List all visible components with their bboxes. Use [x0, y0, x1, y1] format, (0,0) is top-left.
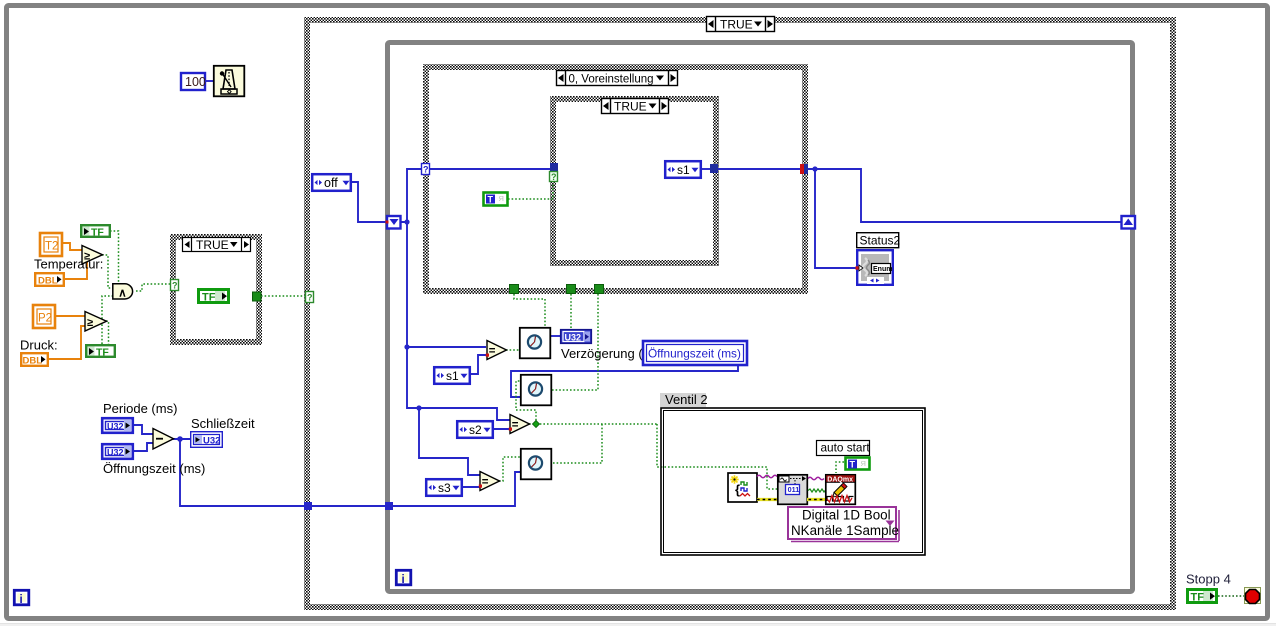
svg-text:U32: U32: [107, 422, 124, 432]
svg-text:?: ?: [307, 293, 313, 303]
error wire create-to-011: [757, 498, 778, 501]
Voreinstellung right tunnel (coercion): [800, 164, 808, 174]
inner loop iteration terminal i: [396, 570, 411, 586]
svg-text:s1: s1: [446, 369, 459, 383]
TF true constant (inner): [484, 193, 508, 206]
tunnel blue square on gray loop: [385, 502, 393, 510]
svg-text:TRUE: TRUE: [720, 18, 753, 32]
svg-text:?: ?: [423, 165, 429, 175]
equals function 2: [509, 415, 530, 434]
purple task wire 011-to-write: [808, 477, 824, 479]
label Oeffnungszeit (ms): [103, 461, 205, 476]
control U32 Periode: [102, 418, 133, 433]
inner case left input tunnel: [550, 163, 558, 172]
svg-text:NKanäle 1Sample: NKanäle 1Sample: [791, 523, 899, 538]
wait timer 2: [521, 375, 552, 406]
less-or-equal function (pressure): [85, 312, 107, 332]
tunnel blue square on big case: [304, 502, 312, 510]
control U32 Oeffnungszeit: [102, 444, 133, 459]
green dotted TF true to inner case selector: [508, 183, 553, 199]
Voreinstellung bottom tunnels: [510, 285, 519, 294]
Voreinstellung left tunnel ?: [422, 164, 430, 175]
boolean control Stopp 4: [1188, 590, 1217, 604]
outer loop iteration terminal i: [14, 590, 28, 606]
svg-text:Periode (ms): Periode (ms): [103, 401, 177, 416]
control P2: [33, 305, 55, 328]
control DBL pressure: [21, 353, 48, 366]
svg-text:?: ?: [551, 172, 557, 182]
left shift register: [386, 216, 401, 229]
bottom scrollbar strip: [0, 624, 1276, 626]
small case TRUE border (left): [173, 237, 259, 342]
green dotted tunnels below Voreinstellung: [514, 294, 598, 390]
enum constant off: [312, 174, 351, 191]
svg-text:i: i: [402, 574, 405, 586]
svg-text:Stopp 4: Stopp 4: [1186, 572, 1231, 587]
boolean indicator TF temperature: [81, 225, 110, 238]
orange wire DBL2 to less-equal: [47, 326, 85, 359]
green dotted auto start TF to DAQmx write: [836, 462, 844, 473]
label Temperatur:: [34, 257, 103, 272]
wire shift-register to case tunnel: [401, 169, 421, 222]
inner case right tunnel: [710, 164, 718, 173]
orange wire P2 to less-equal: [55, 315, 85, 317]
greater-or-equal function (temperature): [82, 246, 103, 265]
wait timer 3: [521, 449, 552, 480]
subtract function: [153, 429, 174, 450]
error wire 011-to-write: [807, 498, 826, 501]
small case selector TRUE: [183, 238, 251, 253]
wire case output to right shift register: [807, 169, 1122, 222]
right shift register: [1122, 216, 1136, 229]
svg-text:s2: s2: [469, 423, 482, 437]
inner case selector TRUE: [602, 99, 669, 114]
purple task wire create-to-011: [757, 475, 777, 477]
boolean indicator TF pressure: [86, 345, 115, 358]
svg-text:P2: P2: [38, 313, 52, 325]
svg-text:auto start: auto start: [821, 441, 871, 455]
svg-text:U32: U32: [203, 436, 220, 447]
label Druck:: [20, 338, 58, 353]
svg-text:s3: s3: [438, 481, 451, 495]
svg-text:TRUE: TRUE: [614, 100, 647, 114]
framed label Oeffnungszeit (ms): [643, 341, 747, 365]
green dotted wires left comparison net: [102, 231, 305, 344]
label Schliesszeit: [191, 416, 255, 431]
green diamond junction: [532, 420, 539, 427]
svg-text:100: 100: [185, 75, 206, 89]
inner case TRUE border: [553, 99, 716, 263]
small case selector terminal ?: [171, 280, 179, 291]
DAQmx write node: [826, 475, 856, 505]
inner case selector tunnel ?: [550, 172, 558, 183]
svg-text:Enum: Enum: [873, 266, 892, 273]
label Verzoegerung (ms): [561, 346, 664, 361]
svg-text:Öffnungszeit (ms): Öffnungszeit (ms): [648, 347, 741, 361]
svg-text:U32: U32: [565, 333, 582, 343]
svg-text:?: ?: [172, 281, 178, 291]
junction dots: [177, 166, 817, 441]
orange wire DBL to greater-equal: [65, 260, 87, 279]
green dotted Stopp TF to stop function: [1218, 595, 1244, 597]
wire Oeffnungszeit control to timer2: [511, 366, 738, 397]
svg-text:∧: ∧: [118, 288, 126, 300]
wire timer1 to U32 constant: [551, 335, 561, 337]
svg-text:Druck:: Druck:: [20, 338, 58, 353]
svg-text:Öffnungszeit (ms): Öffnungszeit (ms): [103, 461, 205, 476]
indicator U32 Schliesszeit: [191, 432, 223, 448]
svg-text:T: T: [850, 460, 856, 470]
inner while loop (gray): [388, 43, 1133, 592]
label auto start: [817, 441, 871, 456]
DAQmx create virtual channel: [728, 473, 757, 502]
wire subtract inputs: [133, 425, 153, 451]
wire s2 to equals2: [493, 428, 510, 430]
svg-text:TF: TF: [96, 347, 109, 359]
constant U32 (blue): [561, 330, 592, 344]
wait timer 1: [520, 328, 551, 359]
boolean array wire 011-to-write: [808, 489, 825, 492]
wire vertical bus to comparisons: [407, 222, 510, 475]
stop function: [1245, 588, 1261, 604]
label Stopp 4: [1186, 572, 1231, 587]
Voreinstellung selector terminal ?: [306, 292, 314, 303]
svg-text:T: T: [488, 195, 494, 205]
svg-text:off: off: [324, 176, 338, 190]
svg-text:011: 011: [788, 485, 800, 494]
svg-text:≥: ≥: [87, 317, 93, 329]
enum constant s2: [457, 421, 493, 438]
Voreinstellung selector: [557, 71, 678, 86]
control DBL temperature: [35, 273, 64, 286]
control T2: [40, 233, 62, 256]
svg-text:=: =: [482, 477, 489, 489]
TF true constant auto start: [846, 458, 870, 470]
wire to Status2 enum: [815, 169, 856, 268]
svg-text:U32: U32: [107, 448, 124, 458]
svg-text:{: {: [735, 482, 740, 497]
wire off-to-shift-register: [352, 182, 388, 222]
big case structure TRUE border: [307, 20, 1173, 607]
TF constant inside small case: [199, 290, 229, 304]
svg-text:TRUE: TRUE: [196, 238, 229, 252]
svg-text:=: =: [489, 346, 496, 358]
svg-text:i: i: [20, 594, 23, 606]
green dotted equals2 net: [516, 381, 778, 489]
wire Voreinstellung tunnel to inner case: [428, 168, 552, 170]
enum indicator Status2: [856, 250, 893, 285]
constant 100: [181, 73, 213, 90]
big case selector TRUE: [707, 17, 775, 32]
label Periode (ms): [103, 401, 177, 416]
svg-text:Я: Я: [499, 194, 504, 203]
green dotted equals1 to timer1: [506, 349, 519, 351]
svg-text:TF: TF: [202, 292, 216, 304]
enum constant s1: [434, 367, 470, 384]
wire s1 to equals1: [471, 355, 487, 374]
and function: [113, 284, 133, 300]
build digital data 011 node: [778, 475, 808, 505]
enum constant s1 (inner case): [665, 161, 701, 178]
svg-text:0, Voreinstellung: 0, Voreinstellung: [569, 74, 654, 86]
case structure 0, Voreinstellung border: [426, 67, 805, 291]
svg-text:Я: Я: [861, 459, 866, 468]
svg-text:Schließzeit: Schließzeit: [191, 416, 255, 431]
svg-text:DBL: DBL: [38, 276, 58, 287]
svg-text:T2: T2: [45, 241, 58, 253]
Ventil 2 label: [660, 392, 708, 407]
svg-text:s1: s1: [677, 163, 690, 177]
wire subtract output to Schliesszeit: [173, 438, 191, 440]
orange wire T2 to greater-equal: [63, 243, 82, 250]
svg-text:=: =: [512, 420, 519, 432]
svg-text:DAQmx: DAQmx: [827, 476, 853, 483]
wait-until-next-ms-multiple metronome: [214, 66, 245, 97]
svg-text:TF: TF: [1191, 592, 1205, 604]
label Status2: [857, 233, 901, 248]
equals function 1: [486, 341, 507, 360]
svg-text:≥: ≥: [84, 251, 90, 263]
svg-text:Status2: Status2: [860, 234, 901, 248]
green dotted equals3 to timer3: [499, 457, 521, 481]
svg-text:DBL: DBL: [23, 356, 43, 367]
enum constant s3: [426, 479, 462, 496]
wire inner tunnel to case right tunnel: [717, 168, 802, 170]
Ventil 2 frame: [661, 408, 925, 555]
svg-text:TF: TF: [91, 227, 104, 239]
svg-text:Digital 1D Bool: Digital 1D Bool: [802, 508, 891, 523]
wire s1 to inner tunnel: [702, 168, 712, 170]
equals function 3: [479, 472, 500, 491]
wire Schliesszeit long wire to timer3: [180, 439, 521, 506]
svg-text:Ventil 2: Ventil 2: [665, 392, 708, 407]
wire s3 to equals3: [463, 486, 480, 488]
dropdown Digital 1D Bool NKanaele 1Sample: [788, 507, 899, 542]
small case output tunnel: [253, 292, 262, 301]
